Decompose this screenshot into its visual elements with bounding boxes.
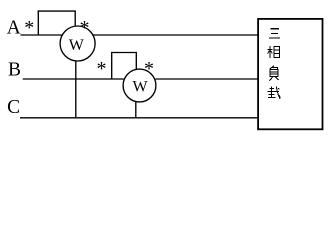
polarity mark * on phase B at W2 <box>97 58 107 80</box>
wire: W1 voltage-coil drop to circle top <box>74 11 76 27</box>
svg-text:*: * <box>144 58 154 80</box>
wire: phase B line, label to wattmeter W2 current coil <box>23 78 124 80</box>
wire: W1 voltage-coil return down to phase C <box>75 61 77 118</box>
svg-text:W: W <box>133 78 149 95</box>
svg-text:C: C <box>7 97 20 118</box>
svg-text:A: A <box>7 18 21 39</box>
wire: W2 voltage-coil top bridge <box>111 52 137 54</box>
load text char 3: fu (load/bear) <box>270 66 279 81</box>
polarity mark * on phase A at W1 <box>24 17 34 39</box>
wire: W1 voltage-coil top bridge <box>38 10 76 12</box>
three-phase load box <box>258 19 322 129</box>
wire: phase A line, label to wattmeter W1 current coil <box>21 34 63 36</box>
phase label B <box>8 60 21 81</box>
polarity mark * at W2 voltage terminal <box>144 58 154 80</box>
wire: phase A line, W1 to load box <box>92 34 257 36</box>
load text char 2: xiang (phase) <box>268 46 280 58</box>
wire: W1 voltage-coil tap up from phase A <box>37 11 39 36</box>
wattmeter W2 <box>123 69 156 102</box>
svg-text:*: * <box>97 58 107 80</box>
polarity mark * at W1 voltage terminal <box>80 17 90 39</box>
svg-text:*: * <box>24 17 34 39</box>
load text char 4: zai (carry) <box>268 86 281 98</box>
wire: W2 voltage-coil return down to phase C <box>135 102 137 118</box>
wire: W2 voltage-coil drop to circle top <box>135 52 137 70</box>
phase label A <box>7 18 21 39</box>
phase label C <box>7 97 20 118</box>
svg-text:B: B <box>8 60 21 81</box>
load text char 1: san (three) <box>269 29 280 38</box>
wire: phase C line, label to load box <box>20 117 258 119</box>
wire: phase B line, W2 to load box <box>155 78 257 80</box>
svg-text:W: W <box>69 37 85 54</box>
wire: W2 voltage-coil tap up from phase B <box>111 52 113 80</box>
wattmeter W1 <box>60 26 95 61</box>
svg-text:*: * <box>80 17 90 39</box>
